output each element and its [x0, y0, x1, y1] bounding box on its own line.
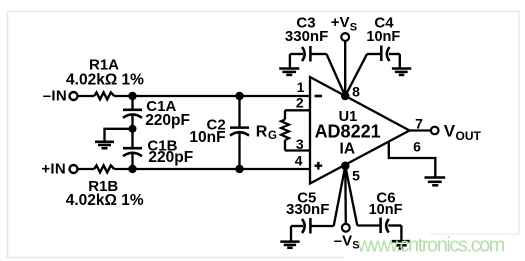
svg-text:330nF: 330nF [285, 28, 328, 45]
terminal -Vs [342, 224, 350, 232]
svg-text:OUT: OUT [456, 129, 482, 143]
capacitor C5 [309, 218, 312, 234]
svg-text:220pF: 220pF [145, 112, 190, 129]
wire to ground [105, 129, 133, 141]
pin 6 wire [389, 142, 436, 177]
svg-text:7: 7 [415, 115, 423, 131]
svg-text:IA: IA [340, 140, 356, 157]
node between C1A/C1B [129, 125, 137, 133]
wire to C5 [334, 166, 346, 226]
wire -Vs [344, 166, 347, 224]
svg-text:4.02kΩ 1%: 4.02kΩ 1% [66, 72, 144, 89]
svg-text:S: S [350, 21, 357, 33]
terminal +Vs [341, 33, 349, 41]
pin 3 wire [285, 149, 310, 151]
ground (C5) [290, 226, 292, 241]
resistor R1B [94, 165, 114, 172]
svg-text:330nF: 330nF [286, 201, 329, 218]
capacitor C4 [380, 46, 383, 62]
svg-text:10nF: 10nF [369, 202, 403, 218]
svg-text:www.cntronics.com: www.cntronics.com [357, 235, 505, 257]
resistor R1A [94, 92, 114, 99]
capacitor C3 [309, 46, 312, 62]
pin 7 wire [410, 129, 431, 131]
svg-text:2: 2 [296, 95, 304, 111]
node A junction [128, 92, 136, 100]
wire +Vs [344, 41, 346, 96]
svg-text:–IN: –IN [43, 87, 67, 104]
wire [114, 95, 310, 97]
svg-text:+IN: +IN [41, 160, 66, 177]
svg-text:10nF: 10nF [366, 29, 400, 45]
capacitor C6 [379, 218, 382, 234]
svg-text:R: R [256, 124, 268, 141]
wire [114, 168, 310, 170]
terminal -IN [70, 92, 78, 100]
svg-text:5: 5 [352, 167, 360, 183]
svg-text:8: 8 [352, 84, 360, 100]
ground (C6) [400, 226, 402, 241]
svg-text:3: 3 [296, 136, 304, 152]
pin 8 node [341, 92, 350, 101]
svg-text:V: V [444, 122, 456, 141]
terminal +IN [70, 165, 78, 173]
svg-text:–V: –V [334, 232, 352, 249]
plus input symbol [315, 164, 323, 166]
minus input symbol [315, 95, 323, 98]
ground (C1 mid) [95, 141, 114, 144]
pin 5 node [341, 162, 350, 171]
pin 2 wire [285, 109, 310, 111]
wire to C3 [327, 54, 346, 96]
svg-text:+V: +V [331, 14, 350, 31]
svg-text:4: 4 [295, 153, 303, 169]
ground (pin 6) [425, 176, 446, 179]
svg-text:220pF: 220pF [148, 149, 193, 166]
ground (C3) [289, 54, 291, 68]
op-amp U1 triangle [310, 77, 410, 184]
wire to C4 [345, 54, 367, 96]
resistor RG [284, 110, 286, 119]
wire [78, 95, 94, 97]
svg-text:1: 1 [297, 79, 305, 95]
svg-text:AD8221: AD8221 [315, 121, 381, 141]
node junction C1B bottom [128, 165, 136, 173]
svg-text:4.02kΩ 1%: 4.02kΩ 1% [66, 192, 144, 209]
svg-text:10nF: 10nF [189, 129, 225, 146]
capacitor C1B [131, 129, 133, 147]
wire to C6 [345, 166, 357, 226]
watermark background box [345, 234, 525, 259]
capacitor C2 [235, 92, 243, 100]
capacitor C1A [131, 96, 133, 109]
ground (C4) [399, 54, 401, 68]
svg-text:G: G [268, 130, 277, 142]
terminal Vout [431, 127, 439, 135]
svg-text:6: 6 [413, 138, 421, 154]
wire [78, 168, 94, 170]
